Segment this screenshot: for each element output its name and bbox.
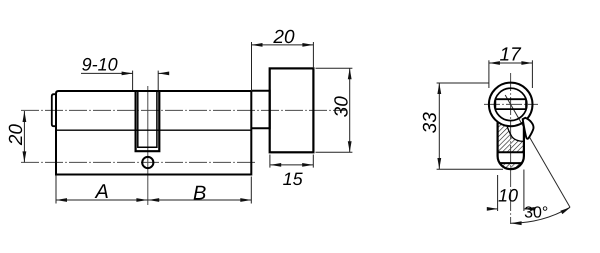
- svg-text:33: 33: [420, 112, 441, 134]
- svg-text:9-10: 9-10: [82, 55, 118, 75]
- svg-text:A: A: [95, 181, 109, 203]
- svg-text:30°: 30°: [524, 205, 548, 222]
- svg-text:20: 20: [6, 124, 27, 147]
- svg-text:17: 17: [500, 45, 523, 66]
- svg-text:30: 30: [331, 96, 352, 118]
- svg-text:10: 10: [498, 185, 518, 205]
- svg-text:20: 20: [272, 27, 295, 48]
- svg-text:15: 15: [283, 169, 304, 189]
- svg-text:B: B: [193, 183, 206, 205]
